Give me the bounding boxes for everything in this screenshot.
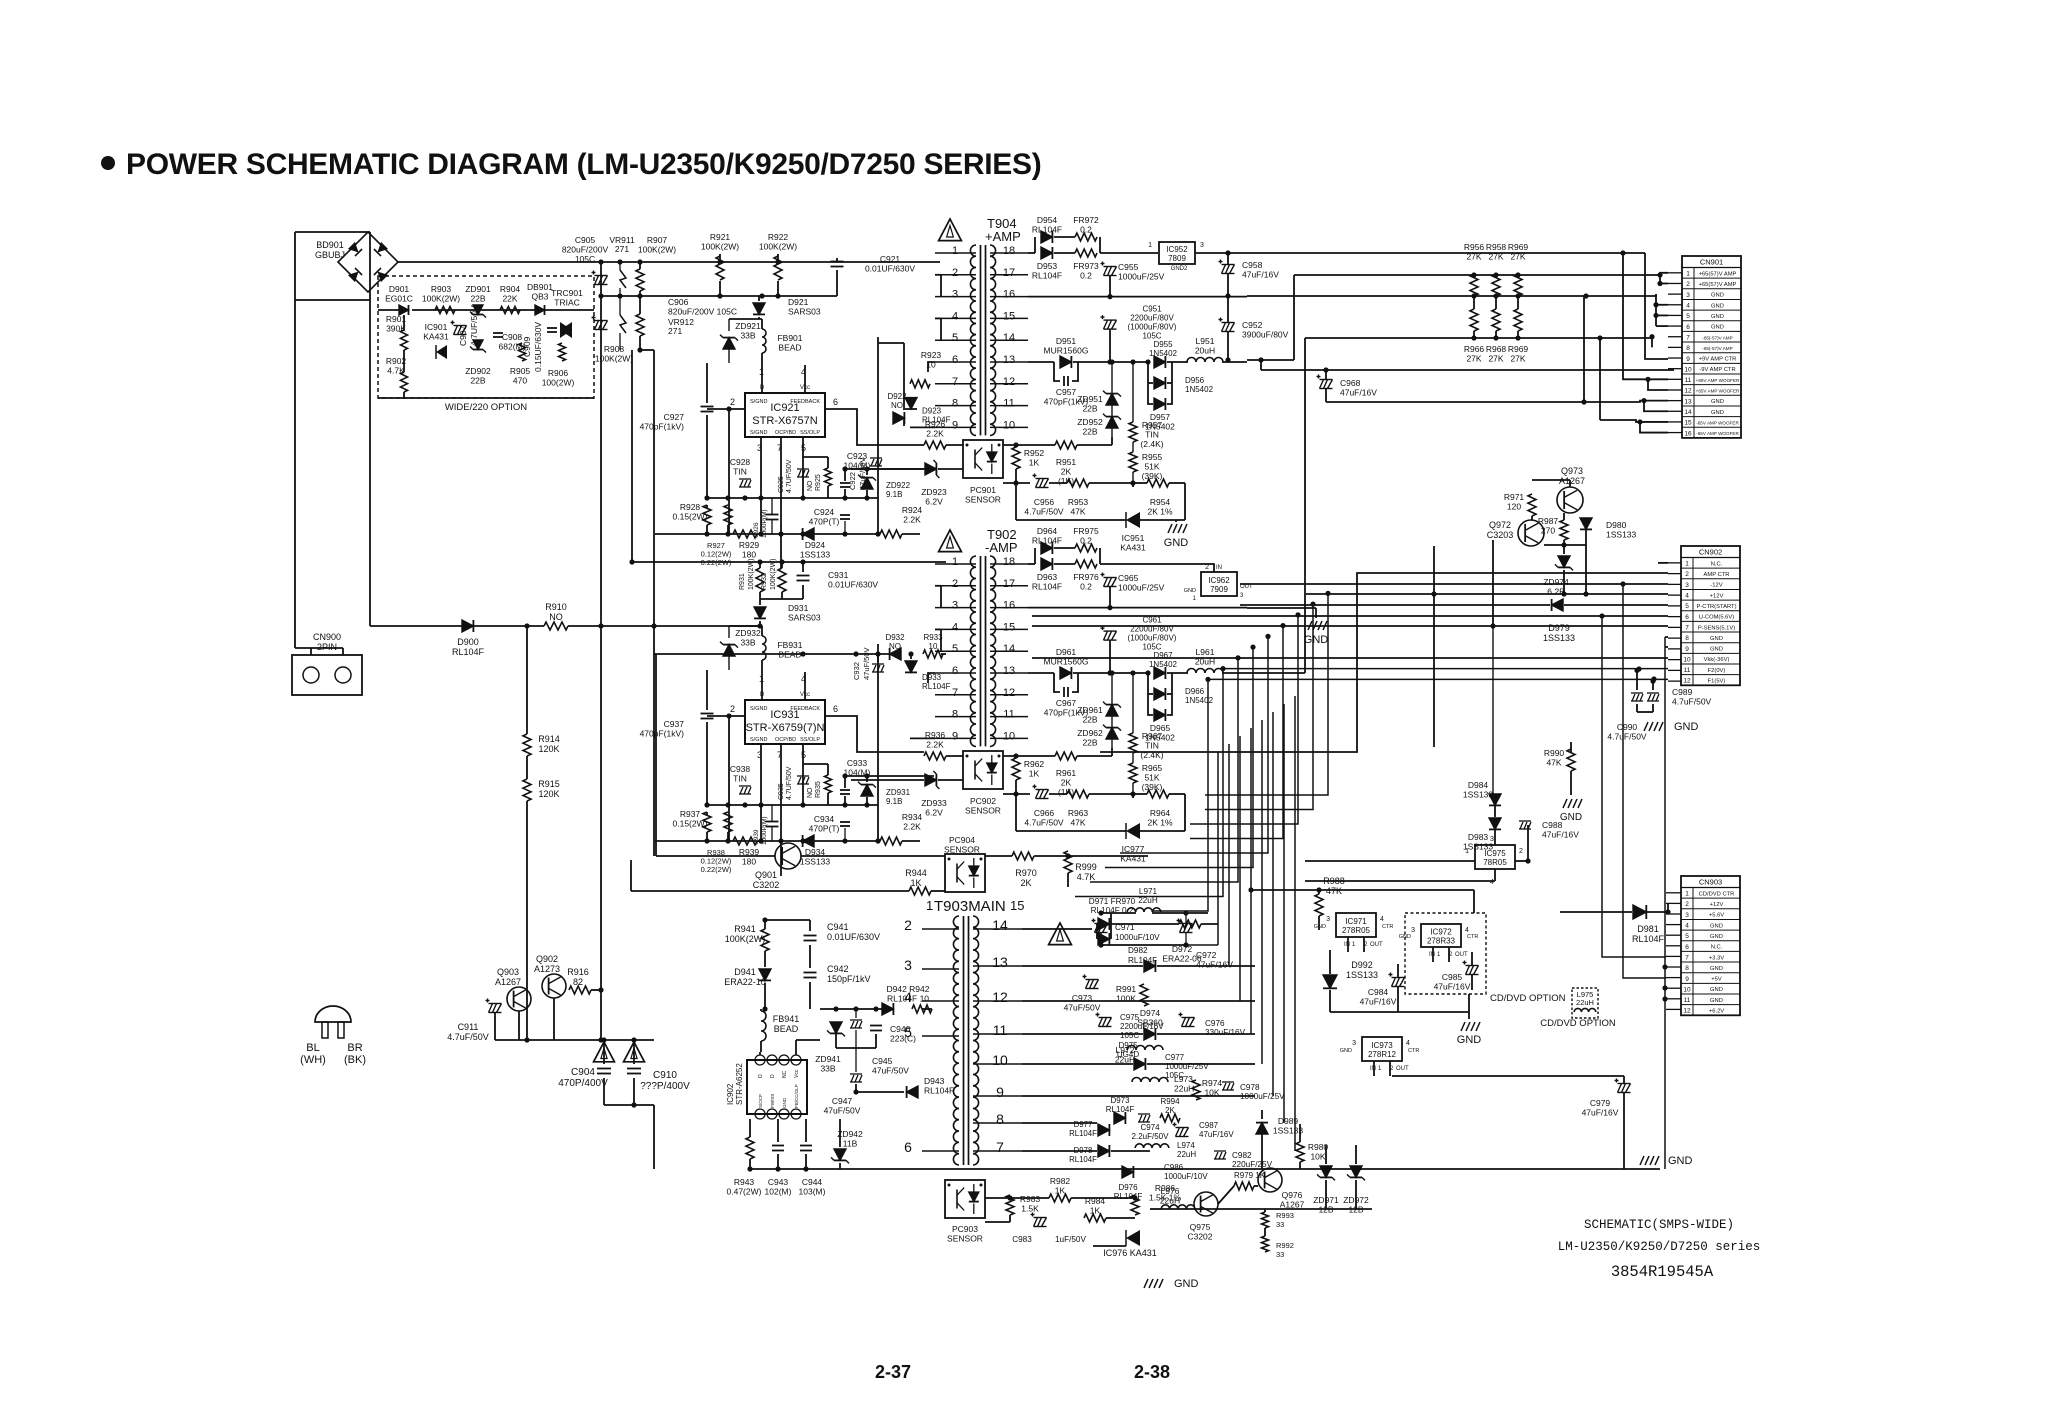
svg-text:D956: D956 [1185,376,1205,385]
svg-text:GND2: GND2 [1171,266,1188,272]
svg-text:8: 8 [952,709,958,721]
svg-text:2PIN: 2PIN [317,642,337,652]
svg-text:3: 3 [1352,1040,1356,1047]
svg-text:GND: GND [1711,293,1724,299]
svg-text:-65V AMP WOOFER: -65V AMP WOOFER [1696,420,1739,425]
svg-text:R952: R952 [1024,448,1045,458]
svg-text:15: 15 [1003,310,1015,322]
svg-text:GND: GND [1710,998,1723,1004]
svg-text:2200uF/80V: 2200uF/80V [1130,314,1174,323]
svg-text:GND: GND [1710,934,1723,940]
svg-text:120: 120 [1507,502,1521,512]
svg-text:C933: C933 [847,758,868,768]
svg-text:47uF/16V: 47uF/16V [1199,1130,1234,1139]
svg-text:TIN: TIN [1145,741,1159,751]
svg-text:D977: D977 [1074,1120,1093,1129]
svg-text:1000uF/25V: 1000uF/25V [1165,1062,1209,1071]
svg-text:4: 4 [1685,593,1689,600]
svg-text:820uF/200V 105C: 820uF/200V 105C [668,307,737,317]
svg-text:470pF(1kV): 470pF(1kV) [640,729,685,739]
svg-text:47uF/16V: 47uF/16V [1360,997,1397,1007]
svg-text:R944: R944 [905,868,927,878]
svg-text:BD901: BD901 [316,240,344,250]
svg-text:ZD932: ZD932 [735,628,761,638]
svg-text:D943: D943 [924,1076,945,1086]
svg-text:C906: C906 [668,297,689,307]
svg-text:1K: 1K [1055,1186,1066,1196]
svg-text:4.7UF/50V: 4.7UF/50V [469,305,479,346]
svg-text:16: 16 [1003,600,1015,612]
svg-text:5: 5 [952,332,958,344]
svg-text:CD/DVD CTR: CD/DVD CTR [1699,891,1735,897]
svg-text:ZD962: ZD962 [1077,728,1103,738]
svg-text:6: 6 [833,397,838,407]
svg-text:+9V AMP CTR: +9V AMP CTR [1699,357,1737,363]
svg-text:GND: GND [1710,647,1723,653]
svg-text:CTR: CTR [1382,924,1393,930]
svg-text:DB901: DB901 [527,282,553,292]
svg-text:9: 9 [952,730,958,742]
svg-text:4: 4 [1380,916,1384,923]
svg-text:GND: GND [1710,923,1723,929]
svg-text:C961: C961 [1142,616,1162,625]
svg-text:D975: D975 [1118,1041,1138,1050]
svg-text:A1267: A1267 [495,977,521,987]
svg-text:N.C.: N.C. [1711,561,1723,567]
svg-text:T903MAIN: T903MAIN [934,898,1006,915]
svg-text:NO: NO [807,480,814,491]
svg-text:R955: R955 [1142,452,1163,462]
svg-text:0.01UF/630V: 0.01UF/630V [828,580,878,590]
svg-text:R971: R971 [1504,492,1525,502]
svg-text:C956: C956 [1034,497,1055,507]
svg-text:1uF/50V: 1uF/50V [1055,1235,1086,1244]
svg-text:27K: 27K [1488,354,1503,364]
svg-text:QB3: QB3 [531,292,548,302]
svg-text:(1000uF/80V): (1000uF/80V) [1128,634,1177,643]
svg-text:BR: BR [347,1042,362,1054]
svg-text:A1267: A1267 [1559,476,1585,486]
svg-text:SARS03: SARS03 [788,613,821,623]
svg-text:GND: GND [1560,812,1582,823]
svg-text:14: 14 [1003,332,1015,344]
svg-text:PC904: PC904 [949,835,975,845]
svg-text:3: 3 [952,289,958,301]
svg-text:180: 180 [742,550,756,560]
svg-text:GND: GND [1668,1155,1693,1167]
svg-text:BL: BL [306,1042,319,1054]
svg-text:C967: C967 [1056,698,1077,708]
svg-text:NO: NO [891,401,903,410]
svg-text:0.47(2W): 0.47(2W) [727,1187,762,1197]
svg-text:22K: 22K [502,294,517,304]
svg-text:WIDE/220 OPTION: WIDE/220 OPTION [445,402,527,413]
svg-text:R969: R969 [1508,242,1529,252]
svg-text:47uF/16V: 47uF/16V [1340,388,1377,398]
svg-text:2: 2 [952,267,958,279]
svg-text:11: 11 [1684,667,1691,674]
svg-text:C905: C905 [575,235,596,245]
svg-text:-65(-57)V AMP: -65(-57)V AMP [1702,346,1732,351]
svg-text:2: 2 [1686,281,1690,288]
svg-text:D955: D955 [1153,340,1173,349]
svg-text:47uF/50V: 47uF/50V [858,457,867,490]
svg-text:GND: GND [1711,410,1724,416]
svg-text:R905: R905 [510,366,531,376]
svg-text:C945: C945 [872,1056,893,1066]
svg-text:12: 12 [1003,687,1015,699]
svg-text:120K: 120K [538,744,559,754]
svg-text:5: 5 [952,643,958,655]
svg-text:FB/CC/OLP: FB/CC/OLP [794,1084,799,1108]
svg-text:CN902: CN902 [1699,548,1722,557]
svg-text:ZD942: ZD942 [837,1129,863,1139]
svg-text:L951: L951 [1196,336,1215,346]
svg-text:1SS133: 1SS133 [1543,633,1575,643]
svg-text:TIN: TIN [1145,430,1159,440]
svg-text:4.7K: 4.7K [1077,872,1096,882]
svg-text:D992: D992 [1351,960,1373,970]
svg-text:C922: C922 [848,472,857,490]
svg-text:RL104F: RL104F [924,1086,954,1096]
svg-text:470P(T): 470P(T) [809,517,840,527]
svg-text:IC902: IC902 [726,1083,735,1105]
svg-text:D971 FR970: D971 FR970 [1089,897,1136,906]
svg-text:100K(2W): 100K(2W) [701,242,739,252]
svg-text:???P/400V: ???P/400V [640,1081,690,1092]
svg-text:Q901: Q901 [755,870,777,880]
svg-text:+65(57)V AMP: +65(57)V AMP [1699,282,1737,288]
svg-text:R916: R916 [567,967,589,977]
svg-text:C976: C976 [1205,1019,1225,1028]
svg-text:-12V: -12V [1710,583,1722,589]
svg-text:271: 271 [668,326,682,336]
svg-text:UG4D: UG4D [1117,1050,1139,1059]
svg-text:STR-A6252: STR-A6252 [735,1063,744,1105]
svg-text:6: 6 [1685,614,1689,621]
svg-text:14: 14 [1003,643,1015,655]
svg-text:ZD923: ZD923 [921,487,947,497]
svg-text:22uH: 22uH [1138,896,1158,905]
svg-text:RL104F: RL104F [1032,271,1062,281]
svg-text:R934: R934 [902,812,923,822]
svg-text:C957: C957 [1056,387,1077,397]
svg-text:D951: D951 [1056,336,1077,346]
svg-text:47uF/50V: 47uF/50V [862,647,871,680]
svg-text:15: 15 [1003,621,1015,633]
svg-text:PC902: PC902 [970,796,996,806]
svg-text:6: 6 [952,665,958,677]
svg-text:R992: R992 [1276,1241,1294,1250]
svg-text:GBUBJ: GBUBJ [315,250,345,260]
svg-text:F1(5V): F1(5V) [1708,679,1726,685]
svg-text:GND: GND [1711,314,1724,320]
svg-text:SARS03: SARS03 [788,307,821,317]
svg-text:RL104F: RL104F [1069,1155,1097,1164]
svg-text:330uF/16V: 330uF/16V [1205,1028,1246,1037]
svg-text:+65(57)V AMP: +65(57)V AMP [1699,271,1737,277]
svg-text:4: 4 [1465,927,1469,934]
svg-text:13: 13 [1003,665,1015,677]
svg-text:5: 5 [1685,603,1689,610]
svg-text:C979: C979 [1590,1098,1611,1108]
svg-text:LM-U2350/K9250/D7250 series: LM-U2350/K9250/D7250 series [1558,1240,1761,1254]
svg-text:ERA22-06: ERA22-06 [1162,954,1201,964]
svg-text:CTR: CTR [1408,1048,1419,1054]
svg-text:12: 12 [1683,678,1691,685]
svg-text:D954: D954 [1037,215,1058,225]
svg-text:C990: C990 [1617,722,1638,732]
svg-text:ZD961: ZD961 [1077,705,1103,715]
svg-text:(2.4K): (2.4K) [1140,439,1163,449]
svg-text:R931: R931 [739,573,746,590]
svg-text:20uH: 20uH [1195,346,1215,356]
svg-text:R903: R903 [431,284,452,294]
svg-text:4: 4 [1685,923,1689,930]
svg-text:278R05: 278R05 [1342,926,1371,935]
svg-text:7: 7 [952,376,958,388]
svg-text:A1267: A1267 [1280,1200,1305,1210]
svg-text:6: 6 [904,1139,912,1155]
svg-text:100K(2W): 100K(2W) [748,558,755,590]
svg-text:1K: 1K [1029,458,1040,468]
svg-text:1SS133: 1SS133 [1463,790,1494,800]
svg-text:22B: 22B [1082,738,1097,748]
svg-text:11: 11 [1684,997,1691,1004]
svg-text:IC972: IC972 [1430,928,1452,937]
svg-text:7: 7 [1685,624,1689,631]
svg-text:47K: 47K [1070,818,1085,828]
svg-text:C984: C984 [1368,987,1389,997]
svg-text:47uF/16V: 47uF/16V [1434,982,1471,992]
svg-text:S/GND: S/GND [750,399,767,405]
svg-text:ZD952: ZD952 [1077,417,1103,427]
svg-text:1: 1 [1148,242,1152,249]
svg-text:-9V AMP CTR: -9V AMP CTR [1699,367,1735,373]
svg-text:+12V: +12V [1710,902,1724,908]
svg-text:NO: NO [807,787,814,798]
svg-text:C3202: C3202 [753,880,780,890]
svg-text:150pF/1kV: 150pF/1kV [827,974,871,984]
svg-text:2: 2 [1205,564,1209,571]
svg-text:7909: 7909 [1210,585,1228,594]
svg-text:1: 1 [1686,271,1690,278]
svg-text:7809: 7809 [1168,254,1186,263]
svg-text:1K: 1K [1029,769,1040,779]
svg-text:100K(2W): 100K(2W) [638,245,676,255]
svg-text:R961: R961 [1056,768,1077,778]
svg-text:14: 14 [1684,409,1692,416]
svg-text:Q975: Q975 [1190,1222,1211,1232]
svg-text:Vkk(-36V): Vkk(-36V) [1704,657,1730,663]
svg-text:-65(-57)V AMP: -65(-57)V AMP [1702,335,1732,340]
svg-text:C965: C965 [1118,573,1139,583]
svg-text:6.2V: 6.2V [925,808,943,818]
svg-text:4.7uF/50V: 4.7uF/50V [1024,818,1064,828]
svg-text:33B: 33B [740,331,755,341]
svg-text:51K: 51K [1144,773,1159,783]
svg-text:C910: C910 [653,1070,677,1081]
svg-text:C938: C938 [730,764,751,774]
svg-text:IN: IN [1429,952,1435,958]
svg-text:NC: NC [782,1070,788,1078]
svg-text:R935: R935 [815,781,822,798]
svg-text:0.01UF/630V: 0.01UF/630V [865,264,915,274]
svg-text:IC951: IC951 [1122,533,1145,543]
svg-text:GND: GND [1710,636,1723,642]
svg-text:51K: 51K [1144,462,1159,472]
svg-text:FR976: FR976 [1073,572,1099,582]
svg-text:IC952: IC952 [1166,245,1188,254]
svg-text:GND: GND [1711,303,1724,309]
svg-text:2K 1%: 2K 1% [1147,818,1172,828]
svg-text:S/GND: S/GND [750,706,767,712]
svg-text:33: 33 [1276,1220,1284,1229]
svg-text:R928: R928 [680,502,701,512]
svg-text:TIN: TIN [733,467,747,477]
svg-text:C968: C968 [1340,378,1361,388]
svg-text:R910: R910 [545,602,567,612]
svg-text:Q902: Q902 [536,954,558,964]
svg-text:17: 17 [1003,578,1015,590]
svg-text:R926: R926 [925,419,946,429]
svg-text:1: 1 [1685,561,1689,568]
svg-text:100K: 100K [1116,994,1136,1004]
svg-text:0.01UF/630V: 0.01UF/630V [827,932,880,942]
svg-text:C947: C947 [832,1096,853,1106]
svg-text:1: 1 [952,245,958,257]
svg-text:47K: 47K [1326,886,1342,896]
svg-text:FEEDBACK: FEEDBACK [790,399,820,405]
svg-text:R906: R906 [548,368,569,378]
svg-text:2.2K: 2.2K [926,740,944,750]
svg-text:R967: R967 [1142,731,1163,741]
svg-text:13: 13 [992,954,1008,970]
svg-text:1N5402: 1N5402 [1185,696,1214,705]
svg-text:0.2: 0.2 [1080,536,1092,546]
svg-text:STR-X6759(7)N: STR-X6759(7)N [746,722,825,734]
svg-text:0.2: 0.2 [1080,582,1092,592]
svg-text:33B: 33B [820,1064,835,1074]
svg-text:D984: D984 [1468,780,1489,790]
svg-text:D932: D932 [885,633,905,642]
svg-text:1N5402: 1N5402 [1185,385,1214,394]
svg-text:D963: D963 [1037,572,1058,582]
svg-text:1SS133: 1SS133 [800,550,831,560]
svg-text:IC971: IC971 [1345,917,1367,926]
svg-text:22B: 22B [470,294,485,304]
svg-text:SENSOR: SENSOR [944,845,980,855]
svg-text:+65V AMP WOOFER: +65V AMP WOOFER [1696,389,1740,394]
svg-text:22B: 22B [470,376,485,386]
svg-text:ZD931: ZD931 [886,788,911,797]
svg-text:+6.2V: +6.2V [1709,1009,1724,1015]
svg-text:RL104F: RL104F [1069,1129,1097,1138]
svg-text:2: 2 [1685,901,1689,908]
svg-text:(BK): (BK) [344,1054,366,1066]
svg-text:C983: C983 [1012,1235,1032,1244]
svg-text:+5V: +5V [1711,977,1722,983]
svg-text:6: 6 [1685,944,1689,951]
svg-text:SCHEMATIC(SMPS-WIDE): SCHEMATIC(SMPS-WIDE) [1584,1218,1734,1232]
svg-text:C931: C931 [828,570,849,580]
svg-text:R956: R956 [1464,242,1485,252]
svg-text:120K: 120K [538,789,559,799]
svg-text:11B: 11B [843,1139,858,1149]
svg-text:R964: R964 [1150,808,1171,818]
svg-text:2.2K: 2.2K [926,429,944,439]
svg-text:D941: D941 [734,967,756,977]
svg-text:R963: R963 [1068,808,1089,818]
svg-text:CN903: CN903 [1699,878,1722,887]
svg-text:D900: D900 [457,637,479,647]
svg-text:+65V AMP WOOFER: +65V AMP WOOFER [1696,378,1740,383]
svg-text:(WH): (WH) [300,1054,326,1066]
svg-text:OCP/BD: OCP/BD [775,737,796,743]
svg-text:STR-X6757N: STR-X6757N [752,415,817,427]
svg-text:NO: NO [549,612,563,622]
svg-text:L973: L973 [1174,1074,1193,1084]
svg-text:RL104F: RL104F [1106,1105,1135,1114]
svg-text:2-38: 2-38 [1134,1362,1170,1382]
svg-text:9: 9 [952,419,958,431]
svg-text:3: 3 [1326,916,1330,923]
svg-text:3: 3 [1686,292,1690,299]
svg-text:C942: C942 [827,964,849,974]
svg-text:R968: R968 [1486,344,1507,354]
svg-text:R932: R932 [761,573,768,590]
svg-text:FEEDBACK: FEEDBACK [790,706,820,712]
svg-text:100K(2W): 100K(2W) [770,558,777,590]
svg-text:P-CTR(START): P-CTR(START) [1696,604,1736,610]
svg-text:0.2: 0.2 [1080,225,1092,235]
svg-text:2: 2 [952,578,958,590]
svg-text:6: 6 [1686,324,1690,331]
svg-text:1: 1 [952,556,958,568]
svg-text:47uF/50V: 47uF/50V [1064,1003,1101,1013]
svg-text:ZD901: ZD901 [465,284,491,294]
svg-text:BEAD: BEAD [778,343,801,353]
svg-text:4: 4 [952,310,958,322]
svg-text:22uH: 22uH [1160,1196,1180,1206]
svg-text:FW/SS: FW/SS [770,1094,775,1108]
svg-text:C927: C927 [664,412,685,422]
svg-text:13: 13 [1003,354,1015,366]
svg-text:PC901: PC901 [970,485,996,495]
svg-text:(39K): (39K) [1142,782,1163,792]
svg-text:FB941: FB941 [773,1014,800,1024]
svg-text:C974: C974 [1140,1123,1160,1132]
svg-text:R914: R914 [538,734,560,744]
svg-text:RL104F: RL104F [1032,582,1062,592]
svg-text:D921: D921 [788,297,809,307]
svg-text:IC976 KA431: IC976 KA431 [1103,1248,1157,1258]
svg-text:R966: R966 [1464,344,1485,354]
svg-text:RL104F: RL104F [452,647,485,657]
svg-text:R987: R987 [1538,516,1559,526]
svg-text:C934: C934 [814,814,835,824]
svg-text:0.15UF/630V: 0.15UF/630V [533,322,543,372]
svg-text:16: 16 [1003,289,1015,301]
svg-text:1N5402: 1N5402 [1149,660,1178,669]
svg-text:C924: C924 [814,507,835,517]
svg-text:22B: 22B [1082,427,1097,437]
svg-text:R990: R990 [1544,748,1565,758]
svg-text:ZD941: ZD941 [815,1054,841,1064]
svg-text:8: 8 [952,398,958,410]
svg-text:C904: C904 [571,1067,595,1078]
svg-text:4: 4 [1686,303,1690,310]
